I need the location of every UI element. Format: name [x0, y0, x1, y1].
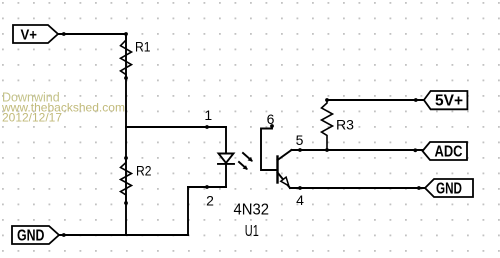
resistor R1: [121, 34, 132, 78]
junction dot pin 6: [270, 124, 274, 128]
opto light arrow 1: [243, 153, 252, 161]
opto base bracket from pin 6: [261, 126, 278, 170]
resistor R2: [121, 158, 132, 203]
tag ADC: [423, 142, 468, 161]
junction dot pin 1: [205, 125, 209, 129]
wire left vertical rail: [125, 34, 127, 235]
opto LED cathode bar: [218, 163, 234, 165]
opto light arrow 2: [239, 162, 247, 169]
opto transistor emitter: [278, 173, 291, 189]
junction dot pin 5: [298, 148, 302, 152]
svg-text:R2: R2: [136, 163, 152, 179]
junction dot 5V+: [414, 98, 418, 102]
wire pin5 row to ADC: [292, 149, 424, 151]
svg-text:1: 1: [204, 107, 212, 123]
junction dot R2 bottom: [124, 201, 128, 205]
arrowhead of light arrow 1: [248, 157, 253, 162]
arrowhead of light arrow 2: [243, 165, 248, 170]
svg-text:R3: R3: [336, 117, 354, 133]
opto LED triangle: [219, 154, 234, 164]
resistor R3: [322, 100, 333, 150]
tag GND left: [12, 226, 59, 245]
opto LED anode lead: [225, 127, 227, 153]
wire pin4 row to GND: [290, 187, 425, 189]
wire bottom GND rail: [59, 234, 188, 236]
junction dot pin 4: [298, 186, 302, 190]
opto emitter arrowhead (open): [281, 177, 289, 186]
junction dot ADC: [413, 148, 417, 152]
tag GND right: [425, 179, 473, 198]
junction dot pin 2: [205, 185, 209, 189]
wire R3 top to 5V+ tag: [327, 99, 424, 101]
svg-text:U1: U1: [245, 223, 259, 240]
junction dot R2 top: [124, 156, 128, 160]
junction dot R1 bottom: [124, 76, 128, 80]
svg-text:2012/12/17: 2012/12/17: [2, 111, 62, 125]
wire V+ tag to R1 top: [58, 33, 126, 35]
svg-text:GND: GND: [17, 228, 45, 245]
svg-text:4: 4: [296, 192, 304, 208]
wire pin1 branch: [126, 126, 226, 128]
svg-text:4N32: 4N32: [234, 202, 270, 219]
svg-text:6: 6: [267, 111, 275, 127]
junction dot GND right: [417, 186, 421, 190]
svg-text:5: 5: [296, 132, 304, 148]
svg-text:GND: GND: [436, 181, 462, 198]
opto transistor collector: [278, 150, 292, 160]
svg-text:5V+: 5V+: [435, 93, 463, 110]
svg-text:V+: V+: [21, 27, 38, 43]
opto LED cathode lead: [225, 164, 227, 187]
junction dot R3 bottom: [325, 148, 329, 152]
junction dot V+: [62, 32, 66, 36]
tag 5V+: [424, 91, 468, 110]
wire pin2 to corner: [188, 186, 226, 188]
svg-text:2: 2: [206, 193, 214, 209]
wire corner vertical: [187, 187, 189, 235]
junction dot R1 top: [124, 32, 128, 36]
junction dot R3 top: [325, 98, 329, 102]
opto transistor base bar: [276, 157, 278, 183]
tag V+: [13, 25, 58, 43]
svg-text:R1: R1: [135, 39, 151, 55]
svg-text:ADC: ADC: [435, 144, 463, 161]
junction dot GND left: [62, 233, 66, 237]
